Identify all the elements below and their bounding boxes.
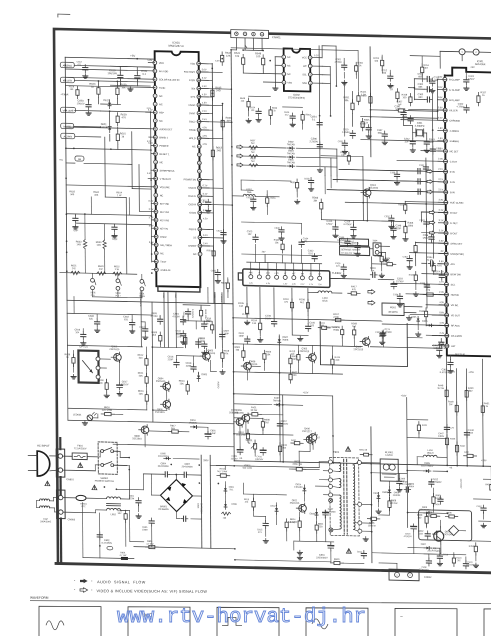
wire tuner bottom mesh	[246, 287, 248, 306]
wire audio den3	[82, 329, 84, 332]
wire tl1	[76, 80, 78, 88]
fusible link blob	[121, 557, 128, 560]
wire IC601 right stub	[200, 195, 210, 197]
IC601 pin 8	[153, 119, 157, 123]
svg-text:2.1V: 2.1V	[301, 284, 306, 286]
wire r441	[418, 420, 420, 425]
svg-text:C333: C333	[419, 220, 425, 222]
wire t801 left stubs	[319, 461, 328, 463]
svg-text:R CLAMP: R CLAMP	[449, 78, 460, 81]
svg-text:10k: 10k	[374, 61, 379, 63]
resistor R647	[396, 89, 398, 93]
wire IC601 right stub	[199, 104, 209, 106]
svg-text:720P: 720P	[73, 229, 79, 232]
wire r-col	[145, 347, 147, 359]
wire rail x330 down	[332, 396, 335, 463]
svg-text:7.3V: 7.3V	[318, 284, 323, 286]
svg-text:SYNT: SYNT	[189, 112, 196, 115]
svg-text:4.7/50V: 4.7/50V	[343, 223, 352, 226]
capacitor C810 main cap	[330, 543, 332, 546]
wire r804	[432, 488, 434, 497]
capacitor C362	[425, 88, 428, 90]
resistor R633 zigzag vertical	[83, 240, 86, 249]
capacitor C607	[221, 331, 223, 334]
capacitor C313	[431, 78, 433, 81]
svg-text:3.1V: 3.1V	[439, 220, 444, 222]
capacitor C316	[352, 224, 354, 227]
svg-text:VD OUT: VD OUT	[451, 314, 461, 317]
wire q802 down	[106, 379, 108, 383]
resistor R612	[145, 355, 147, 359]
IC601 pin 20	[154, 218, 158, 222]
resistor R406m	[445, 515, 449, 517]
wire IC301 pin 3 stub	[437, 99, 446, 101]
svg-text:102: 102	[248, 234, 253, 236]
capacitor C361	[425, 78, 428, 80]
svg-text:2.0V: 2.0V	[438, 159, 443, 161]
wire row y318	[233, 322, 302, 323]
IC601 pin 24	[154, 251, 158, 255]
svg-text:SDA: SDA	[174, 294, 177, 299]
IC601 pin 31	[198, 219, 202, 223]
transistor Q803	[203, 352, 211, 360]
svg-text:220K 1W: 220K 1W	[292, 464, 302, 466]
svg-text:AFT: AFT	[292, 272, 296, 275]
waveform box 6	[484, 609, 491, 636]
capacitor C452	[482, 505, 484, 508]
wire r336	[404, 202, 406, 205]
resistor R614	[184, 334, 186, 338]
svg-text:SE: SE	[193, 236, 197, 239]
resistor R629	[117, 113, 119, 117]
svg-text:14B: 14B	[76, 243, 81, 246]
transistor Q303	[309, 354, 317, 362]
svg-text:10/16V: 10/16V	[77, 102, 85, 105]
wire bridge feed	[116, 488, 143, 491]
wire power to right	[210, 464, 234, 467]
svg-text:AFT: AFT	[451, 345, 456, 348]
capacitor C102	[314, 253, 316, 256]
svg-text:2.4V: 2.4V	[202, 119, 207, 121]
svg-text:OSD R: OSD R	[188, 203, 196, 206]
wire bridge bottom	[177, 518, 181, 520]
svg-text:38.9MHz: 38.9MHz	[388, 311, 398, 314]
svg-text:1.2/50V: 1.2/50V	[342, 132, 350, 134]
capacitor C604	[319, 120, 321, 123]
svg-text:1k: 1k	[273, 110, 276, 112]
connector CN806 body	[56, 490, 65, 519]
wire IC601 right stub	[199, 71, 209, 73]
svg-text:22k: 22k	[241, 101, 245, 103]
resistor R103	[282, 241, 284, 245]
IC601 pin 21	[154, 226, 158, 230]
wire tuner pin 2	[258, 262, 260, 275]
svg-text:100: 100	[70, 89, 74, 91]
svg-text:VDD: VDD	[159, 62, 164, 65]
svg-text:WAVEFORM: WAVEFORM	[30, 596, 49, 600]
diode D807s	[424, 547, 426, 549]
transistor Q801 power	[434, 531, 444, 541]
svg-text:4.3V: 4.3V	[439, 302, 444, 304]
svg-text:0V: 0V	[441, 251, 444, 253]
ground c337	[390, 224, 392, 226]
IC601 pin 12	[154, 152, 158, 156]
svg-text:22/16V: 22/16V	[396, 280, 404, 283]
IC601 pin 13	[154, 160, 158, 164]
IC601 pin 27	[198, 252, 202, 256]
L802 core	[107, 503, 121, 505]
svg-text:C331: C331	[419, 165, 425, 167]
wire rb6	[280, 223, 282, 228]
svg-text:0.1V: 0.1V	[203, 235, 208, 237]
svg-text:+25V: +25V	[481, 460, 487, 462]
svg-text:22/16V: 22/16V	[231, 458, 238, 460]
waveform box 4	[306, 608, 368, 636]
signal arrow OSD 1	[237, 145, 243, 149]
diode D602	[287, 147, 290, 149]
IC601 pin 33	[198, 202, 202, 206]
capacitor C342 rgb	[416, 180, 418, 182]
svg-text:D803: D803	[382, 492, 388, 494]
svg-text:0.6V: 0.6V	[439, 312, 444, 314]
wire r338	[381, 252, 383, 256]
ground center col	[319, 168, 321, 170]
svg-text:D400: D400	[434, 504, 440, 506]
resistor R821	[360, 454, 364, 456]
svg-text:T801: T801	[333, 450, 340, 454]
wire C362 lead	[414, 88, 424, 90]
svg-text:+115V: +115V	[448, 371, 455, 373]
svg-text:4k7: 4k7	[293, 359, 297, 361]
label AV(SW)	[60, 62, 74, 68]
capacitor C611	[136, 72, 138, 75]
svg-text:2.4V: 2.4V	[439, 333, 444, 335]
capacitor C316b	[441, 272, 443, 275]
resistor R641	[242, 54, 244, 58]
resistor R643	[212, 147, 214, 151]
wire IC601 right stub	[200, 187, 210, 189]
tuner pin 2	[257, 275, 261, 279]
svg-text:1k0: 1k0	[352, 326, 356, 328]
svg-text:3047/T600V: 3047/T600V	[429, 482, 442, 484]
degauss coil DGP801 winding B	[40, 506, 50, 508]
wire sync det	[415, 256, 417, 266]
resistor R616	[101, 413, 105, 415]
label KILLER	[60, 77, 74, 83]
IC301 pin 12	[444, 190, 448, 194]
svg-text:223: 223	[336, 266, 340, 268]
svg-text:2SC1815: 2SC1815	[290, 503, 300, 505]
wire RGB in	[339, 169, 447, 171]
border frame	[54, 29, 491, 573]
wire tuner pin 4	[276, 263, 278, 276]
svg-text:0.1V: 0.1V	[202, 78, 207, 80]
svg-text:1d: 1d	[121, 135, 124, 138]
svg-text:POWER SWITCH: POWER SWITCH	[95, 480, 114, 483]
svg-text:2SB1238: 2SB1238	[229, 412, 239, 414]
CN601 pins	[235, 32, 239, 36]
wire right edge stubs	[483, 478, 491, 480]
resistor R417	[348, 292, 352, 294]
svg-text:2047/200V: 2047/200V	[158, 456, 169, 458]
connector CN302	[440, 51, 491, 52]
svg-text:182: 182	[434, 80, 439, 82]
resistor R622 zigzag	[113, 272, 122, 276]
AC inlet plug	[37, 451, 50, 476]
capacitor C321	[465, 77, 467, 80]
svg-text:2SCP/T500V: 2SCP/T500V	[427, 551, 440, 553]
resistor R369	[353, 326, 355, 330]
svg-text:4.7V: 4.7V	[439, 282, 444, 284]
svg-text:3.1V: 3.1V	[439, 210, 444, 212]
svg-text:OSD B: OSD B	[189, 228, 197, 231]
warning triangle T801	[346, 447, 351, 452]
svg-text:7MCAB: 7MCAB	[287, 161, 295, 164]
svg-text:R655: R655	[290, 182, 296, 184]
IC301 pin 22	[445, 293, 449, 297]
svg-text:RESET 1: RESET 1	[160, 153, 171, 156]
key switch S605	[91, 273, 93, 278]
ground c623	[223, 239, 225, 241]
svg-text:C623: C623	[216, 230, 222, 232]
resistor R609	[159, 332, 161, 336]
wire C361 lead	[414, 78, 424, 80]
svg-text:VCC: VCC	[302, 57, 307, 59]
svg-text:1d: 1d	[390, 88, 393, 91]
resistor R615	[117, 131, 119, 135]
wire IC601 right stub	[199, 96, 209, 98]
capacitor C610	[119, 72, 121, 75]
svg-text:MN15287-D: MN15287-D	[169, 44, 184, 48]
svg-text:4.5V: 4.5V	[202, 94, 207, 96]
wire l404	[437, 456, 447, 458]
capacitor C650	[203, 342, 205, 344]
resistor R452	[490, 481, 491, 485]
ground t801	[365, 537, 367, 539]
diode D612	[109, 100, 111, 103]
svg-text:220: 220	[177, 335, 182, 338]
IC601 pin 38	[197, 161, 201, 165]
svg-text:7MH4B: 7MH4B	[273, 400, 281, 402]
svg-text:B IN: B IN	[450, 191, 455, 194]
tuner pin 5	[283, 275, 287, 279]
IC301 pin 19	[444, 262, 448, 266]
svg-text:2SC1815: 2SC1815	[368, 187, 379, 190]
IC U301 body	[445, 67, 491, 356]
wire audio mesh 2	[68, 408, 147, 410]
svg-text:HOLD: HOLD	[189, 137, 196, 140]
resistor R321	[369, 93, 371, 97]
svg-text:2.2/50V: 2.2/50V	[309, 140, 318, 143]
label SB box	[75, 156, 84, 161]
signal arrow OSD 3	[237, 163, 243, 167]
capacitor D400c	[439, 496, 441, 499]
wire mid mesh3	[389, 70, 391, 74]
wire CN601 drops	[235, 38, 237, 50]
IC601 pin 29	[198, 236, 202, 240]
resistor R814	[299, 517, 301, 521]
resistor R806	[367, 518, 371, 520]
wire audio mesh 1	[182, 316, 184, 318]
wire rb2	[241, 180, 291, 181]
svg-text:1806: 1806	[408, 224, 414, 227]
wire t801 sec stubs	[361, 462, 373, 464]
svg-text:10k: 10k	[275, 242, 280, 244]
svg-text:1k0: 1k0	[293, 375, 297, 377]
diode D805	[423, 470, 425, 472]
wire ra3	[269, 97, 271, 109]
wire saw in	[375, 302, 381, 304]
svg-text:Q101 2SC1815: Q101 2SC1815	[324, 327, 341, 329]
ground c317	[357, 251, 359, 253]
svg-text:NC: NC	[287, 74, 291, 76]
svg-text:3.9V: 3.9V	[438, 107, 443, 109]
wire c810	[330, 542, 332, 544]
svg-text:7MH8: 7MH8	[282, 340, 289, 342]
IC601 pin 4	[153, 86, 157, 90]
capacitor C301	[343, 62, 345, 65]
wire IC602 right stubs	[312, 57, 322, 59]
svg-text:150: 150	[319, 526, 324, 528]
capacitor C631	[344, 140, 346, 143]
wire rail x222	[223, 104, 225, 304]
capacitor C306	[319, 142, 321, 145]
IC601 pin 23	[154, 243, 158, 247]
svg-text:R656: R656	[270, 198, 276, 200]
wire IC602 left stubs	[275, 56, 282, 58]
wire r339	[425, 308, 427, 311]
svg-text:3k3: 3k3	[282, 448, 286, 450]
border frame bottom	[56, 563, 491, 572]
crystal X301	[413, 132, 417, 134]
wire IC601 right stub	[199, 129, 209, 131]
resistor R613	[187, 381, 189, 385]
wire staircase 1	[66, 162, 75, 164]
resistor R424	[247, 430, 249, 434]
signal arrow RGB in 2	[427, 180, 433, 184]
svg-text:C604: C604	[139, 327, 145, 329]
capacitor C610k	[182, 331, 184, 334]
svg-text:OSD G: OSD G	[188, 195, 196, 198]
wire L802 wiring	[63, 511, 96, 514]
IC601 pin 1	[153, 61, 157, 65]
capacitor C630	[280, 227, 282, 230]
wire fuse out	[87, 456, 98, 458]
svg-text:2SC1815: 2SC1815	[300, 351, 310, 353]
wire smps mid mesh	[243, 493, 276, 496]
wire R620 bus	[97, 81, 99, 84]
resistor R339	[425, 308, 427, 312]
capacitor C812a	[430, 479, 432, 482]
IC601 pin 37	[198, 169, 202, 173]
wire tuner rail2	[242, 254, 322, 256]
wire tuner pin 3	[267, 263, 269, 276]
capacitor C343	[426, 139, 428, 142]
capacitor C332	[432, 146, 434, 149]
waveform panel line	[30, 601, 491, 604]
wire cap col rail	[413, 79, 415, 100]
resistor R336	[404, 201, 406, 205]
wire sec out lines	[406, 465, 408, 471]
IC601 pin 47	[197, 87, 201, 91]
svg-text:+18V: +18V	[401, 394, 407, 397]
svg-text:4.3V: 4.3V	[266, 283, 271, 285]
svg-text:2200/400V: 2200/400V	[316, 556, 328, 559]
svg-text:1.2V: 1.2V	[249, 283, 254, 285]
svg-text:VSS: VSS	[287, 83, 292, 85]
resistor R104	[259, 320, 261, 324]
svg-text:TUNER: TUNER	[332, 271, 342, 275]
svg-text:L802: L802	[111, 513, 117, 516]
capacitor C624	[258, 108, 260, 111]
wire IC601 right stub	[200, 203, 210, 205]
IC601 pin 3	[153, 77, 157, 81]
tuner pin 3	[266, 275, 270, 279]
mark UR oval	[107, 546, 113, 550]
resistor R657	[357, 92, 359, 96]
capacitor C326	[343, 264, 345, 267]
wire c805	[150, 490, 152, 519]
signal arrow IF2	[368, 301, 375, 306]
wire r652	[211, 319, 213, 324]
svg-text:160uH: 160uH	[427, 453, 434, 455]
svg-text:1/50V: 1/50V	[468, 78, 475, 81]
transformer T801 primary winding 2	[339, 479, 341, 488]
diode D802	[377, 492, 379, 495]
wire IC601 right stub	[199, 63, 209, 65]
capacitor C613k	[144, 326, 146, 329]
wire sec diodes	[371, 472, 407, 475]
signal arrow RGB in 1	[427, 169, 433, 173]
svg-text:4.3V: 4.3V	[439, 323, 444, 325]
svg-text:100/16V: 100/16V	[255, 459, 264, 461]
svg-text:OSC2: OSC2	[189, 120, 196, 123]
wire rail x150 audio	[151, 302, 154, 422]
wire rb1	[296, 175, 298, 182]
svg-text:NC: NC	[160, 252, 164, 255]
svg-text:4.5V: 4.5V	[202, 136, 207, 138]
svg-text:2047/200V: 2047/200V	[182, 466, 194, 468]
wire long y110	[361, 117, 438, 119]
svg-text:103: 103	[469, 433, 474, 435]
resistor R453	[475, 543, 477, 547]
diode D801 zener	[224, 486, 226, 488]
wire IC301 pin 18 stub	[439, 252, 448, 254]
svg-text:0.1/50V: 0.1/50V	[337, 239, 346, 242]
IC601 pin 46	[197, 95, 201, 99]
svg-text:R446: R446	[450, 438, 456, 440]
svg-text:1/50V: 1/50V	[422, 238, 428, 240]
wire c650	[203, 339, 205, 342]
diode D808	[225, 502, 227, 504]
signal arrow RGB out 2	[429, 221, 435, 225]
wire opto-q802	[100, 358, 111, 360]
svg-text:POWER: POWER	[220, 295, 222, 303]
svg-text:R654: R654	[306, 114, 312, 116]
svg-text:WP: WP	[303, 66, 307, 68]
svg-text:C632: C632	[211, 270, 217, 272]
waveform trace 4	[312, 619, 328, 629]
wire IC301 pin 22 stub	[439, 293, 448, 295]
capacitor C339	[381, 331, 383, 334]
wire rail x432	[432, 93, 433, 258]
wire IC601 right stub	[200, 228, 210, 230]
wire thick bus below CN806	[60, 519, 63, 564]
wire rail x319	[318, 46, 321, 166]
wire q811 mesh	[303, 493, 305, 501]
capacitor C816	[439, 553, 441, 556]
diode D305	[417, 316, 419, 318]
